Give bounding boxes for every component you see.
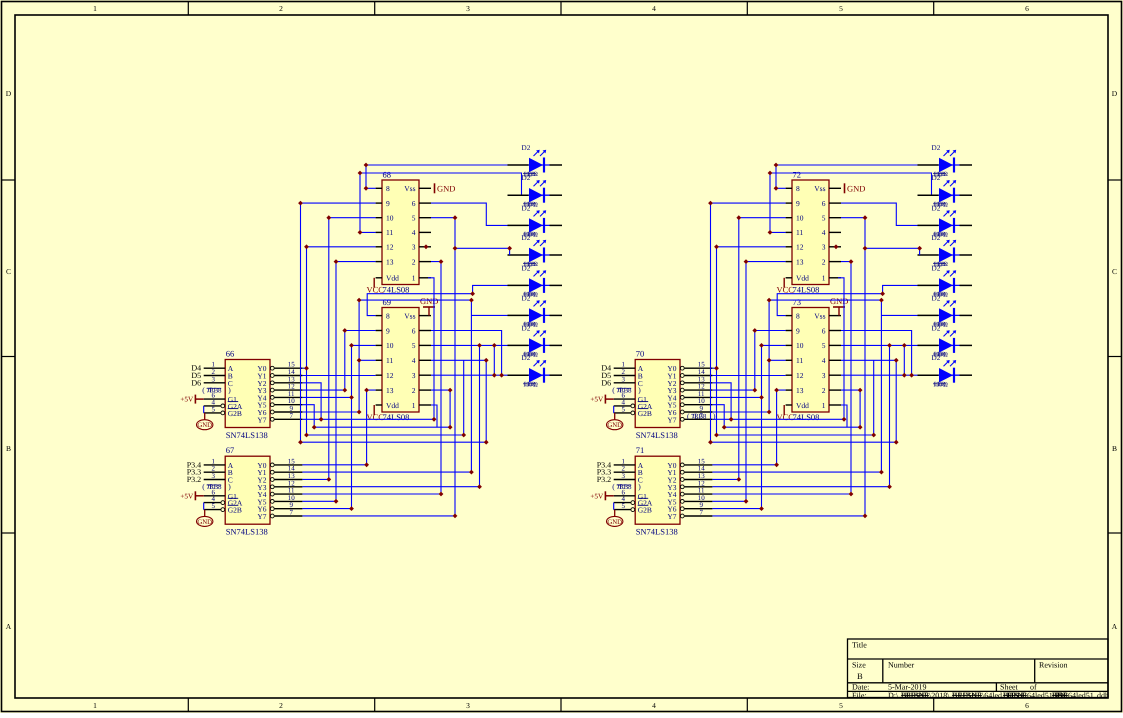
pin Vss of U68 (right) (419, 187, 431, 189)
svg-text:5: 5 (621, 405, 625, 413)
svg-text:4: 4 (652, 701, 656, 710)
wire Y3 U66 (302, 389, 344, 391)
wire Y1 U71 (712, 471, 881, 473)
svg-text:B: B (6, 444, 11, 453)
pin 9 (Y6) of U67 (270, 507, 274, 511)
junction 23 (499, 373, 504, 378)
wire pin9 U68 left (301, 203, 376, 442)
wire pin8 U69 to LED5 (367, 285, 507, 315)
junction 4 (768, 230, 773, 235)
junction 12 (842, 417, 847, 422)
pin 4 (G2A) of U66 (204, 405, 221, 407)
pin 10 of U69 (left) (376, 344, 382, 346)
wire cross y435 (717, 434, 874, 436)
pin 2 (B) of U71 (614, 471, 636, 473)
svg-text:10: 10 (386, 341, 394, 350)
LED D2 #4 symbol (939, 248, 953, 262)
pin 9 of U73 (left) (786, 330, 792, 332)
pin 8 of U69 (left) (376, 315, 382, 317)
junction 38 (334, 499, 339, 504)
svg-text:3: 3 (822, 243, 826, 252)
pin 6 of U69 (right) (419, 330, 431, 332)
svg-text:GND: GND (607, 519, 622, 526)
svg-text:GND: GND (420, 296, 438, 306)
svg-text:Ω: Ω (943, 322, 948, 329)
wire pin2 U68 to Y4 U67 (431, 262, 441, 494)
wire pin11 U73 top (769, 299, 881, 301)
junction 30 (342, 328, 347, 333)
junction 18 (357, 298, 362, 303)
LED D2 #8 anode wire (918, 374, 939, 376)
junction 5 (708, 201, 713, 206)
wire link LED7 LED8 (903, 345, 905, 375)
wire pin2 U69 riser (431, 390, 450, 427)
wire pin6 U72 to LED3 (841, 203, 918, 225)
junction 20 (767, 410, 772, 415)
junction 43 (304, 433, 309, 438)
svg-text:B: B (857, 671, 863, 681)
svg-text:Y7: Y7 (667, 415, 676, 424)
LED D2 #2 anode wire (918, 194, 939, 196)
pin 4 of U68 (right) (419, 231, 431, 233)
svg-text:HEIBHR: HEIBHR (1052, 691, 1068, 700)
svg-text:Ω: Ω (533, 322, 538, 329)
wire pin10 U68 to Y2 U67 (329, 218, 376, 480)
wire pin5 U72 bus (841, 217, 865, 219)
LED D2 #6 symbol (939, 308, 953, 322)
wire link LED7 LED8 (493, 345, 495, 375)
svg-text:Y7: Y7 (667, 512, 676, 521)
svg-text:3: 3 (466, 4, 470, 13)
svg-text:Ω: Ω (943, 201, 948, 208)
junction 33 (349, 395, 354, 400)
svg-text:tR: tR (693, 413, 700, 420)
svg-text:7: 7 (289, 509, 293, 517)
svg-text:12: 12 (386, 371, 394, 380)
wire Y3 U70 (712, 389, 754, 391)
LED D2 #6 anode wire (918, 314, 939, 316)
junction 35 (774, 388, 779, 393)
svg-text:+5V: +5V (590, 492, 604, 500)
wire riser x463 (873, 360, 875, 435)
svg-text:\64led: \64led (982, 691, 1002, 700)
pin 9 (Y6) of U70 (680, 410, 684, 414)
junction 37 (736, 477, 741, 482)
LED D2 #4 cathode wire (960, 254, 973, 256)
LED D2 #6 emission arrows (944, 301, 949, 306)
junction 30 (752, 328, 757, 333)
svg-text:+5V: +5V (180, 492, 194, 500)
svg-text:8: 8 (386, 311, 390, 320)
wire Y3 U67 (302, 486, 479, 488)
LED D2 #7 cathode wire (960, 344, 973, 346)
svg-text:C: C (6, 267, 11, 276)
svg-text:B: B (1112, 444, 1117, 453)
pin 3 of U69 (right) (419, 374, 431, 376)
junction 1 (364, 163, 369, 168)
svg-text:4: 4 (822, 356, 826, 365)
wire Y1 U70 to pin12 U73 (712, 375, 785, 377)
junction 7 (714, 244, 719, 249)
pin 15 (Y0) of U70 (680, 366, 684, 370)
wire Y3 riser to LED7 (479, 345, 481, 486)
pin 6 of U68 (right) (419, 202, 431, 204)
svg-text:Vdd: Vdd (796, 401, 809, 410)
svg-text:P3.2: P3.2 (187, 475, 201, 484)
svg-text:6: 6 (1025, 4, 1029, 13)
junction 13 (304, 366, 309, 371)
IC U71 SN74LS138 body (635, 456, 680, 524)
pin 1 of U73 (right) (829, 404, 841, 406)
svg-text:Ω: Ω (533, 352, 538, 359)
svg-text:D: D (1112, 89, 1118, 98)
svg-text:1: 1 (93, 701, 97, 710)
junction 5 (298, 201, 303, 206)
svg-text:Ω: Ω (943, 232, 948, 239)
svg-text:10: 10 (796, 214, 804, 223)
svg-text:1: 1 (93, 4, 97, 13)
svg-text:+5V: +5V (590, 396, 604, 404)
wire Y2 U71 (712, 478, 738, 480)
junction 10 (453, 215, 458, 220)
wire Y2 U70 (712, 383, 731, 420)
svg-text:2: 2 (412, 257, 416, 266)
pin 2 (B) of U67 (204, 471, 226, 473)
junction 28 (312, 425, 317, 430)
wire cross y427 (314, 426, 450, 428)
LED D2 #1 cathode wire (550, 164, 563, 166)
LED D2 #7 cathode wire (550, 344, 563, 346)
svg-text:5: 5 (621, 502, 625, 510)
junction 28 (722, 425, 727, 430)
ground symbol GND at U66 (204, 413, 206, 420)
pin 5 of U72 (right) (829, 217, 841, 219)
VCC connection at Vdd of U68 (373, 278, 375, 288)
svg-text:Ω: Ω (943, 171, 948, 178)
power port GND at Vss of U73 (838, 307, 840, 316)
pin 10 (Y5) of U66 (270, 403, 274, 407)
svg-text:1: 1 (822, 274, 826, 283)
pin 8 of U73 (left) (786, 315, 792, 317)
pin 4 of U73 (right) (829, 359, 841, 361)
pin 10 (Y5) of U70 (680, 403, 684, 407)
junction 23 (909, 373, 914, 378)
svg-text:3: 3 (412, 243, 416, 252)
junction 44 (863, 246, 868, 251)
LED D2 #2 symbol (939, 188, 953, 202)
pin 6 of U73 (right) (829, 330, 841, 332)
pin 12 (Y3) of U71 (680, 485, 684, 489)
junction 2 (774, 186, 779, 191)
ground symbol GND at U71 (614, 510, 616, 516)
LED D2 #5 anode wire (918, 284, 939, 286)
wire pin10 U69 stub wire (352, 344, 376, 346)
wire cross y442 (711, 441, 897, 443)
svg-text:5: 5 (412, 341, 416, 350)
svg-text:G2B: G2B (228, 506, 242, 515)
svg-text:74LS08: 74LS08 (383, 412, 410, 422)
wire net LED2 horizontal (360, 173, 522, 195)
svg-text:11: 11 (386, 356, 393, 365)
svg-text:4: 4 (412, 356, 416, 365)
wire Y2 U66 (302, 383, 321, 420)
junction 16 (894, 440, 899, 445)
pin 4 of U72 (right) (829, 231, 841, 233)
svg-text:Y7: Y7 (257, 512, 266, 521)
pin 11 of U68 (left) (376, 231, 382, 233)
pin 3 (C) of U70 (614, 382, 636, 384)
wire Y6 U66 (302, 411, 359, 413)
LED D2 #1 anode wire (918, 164, 939, 166)
pin Vdd of U68 (left) (376, 277, 382, 279)
wire Y4 U71 (712, 493, 851, 495)
svg-text:HEIBHR: HEIBHR (901, 691, 929, 700)
wire pin10 U73 stub wire (762, 344, 786, 346)
junction 25 (492, 373, 497, 378)
svg-text:GND: GND (847, 183, 865, 193)
IC U66 SN74LS138 body (225, 360, 270, 428)
wire pin1 U73 riser (841, 405, 847, 427)
junction 34 (349, 506, 354, 511)
wire pin10 U72 to Y2 U71 (739, 218, 786, 480)
wire net LED2 to pin11 U68 (360, 173, 376, 232)
wire pin6 U73 right (841, 331, 912, 376)
wire branch to LED4 (455, 248, 510, 255)
svg-text:+5V: +5V (180, 396, 194, 404)
IC U72 74LS08 body (792, 180, 829, 285)
svg-text:G2B: G2B (638, 409, 652, 418)
pin 7 (Y7) of U70 (680, 417, 684, 421)
svg-text:64led51: 64led51 (1027, 691, 1053, 700)
pin Vdd of U72 (left) (786, 277, 792, 279)
junction 16 (484, 440, 489, 445)
LED D2 #5 symbol (529, 278, 543, 292)
wire riser x351 (351, 345, 353, 508)
pin 11 of U72 (left) (786, 231, 792, 233)
junction 33 (759, 395, 764, 400)
wire pin11 U73 riser (768, 300, 770, 412)
svg-text:D2: D2 (522, 144, 531, 152)
pin 12 of U73 (left) (786, 374, 792, 376)
wire branch to LED4 (865, 248, 920, 255)
svg-text:3: 3 (621, 375, 625, 383)
pin 12 (Y3) of U70 (680, 388, 684, 392)
junction 40 (863, 514, 868, 519)
junction 34 (759, 506, 764, 511)
pin 13 of U73 (left) (786, 389, 792, 391)
pin 12 (Y3) of U66 (270, 388, 274, 392)
svg-text:5: 5 (211, 405, 215, 413)
pin 3 of U72 (right) (829, 246, 841, 248)
junction 22 (879, 470, 884, 475)
LED D2 #1 symbol (939, 158, 953, 172)
svg-text:Title: Title (852, 641, 867, 650)
svg-text:Ω: Ω (943, 261, 948, 268)
pin 4 (G2A) of U71 (614, 502, 631, 504)
svg-text:4: 4 (822, 228, 826, 237)
svg-text:9: 9 (796, 199, 800, 208)
LED D2 #6 emission arrows (534, 301, 539, 306)
junction 9 (849, 259, 854, 264)
LED D2 #3 cathode wire (960, 224, 973, 226)
pin 6 (G1) of U67 (204, 495, 226, 497)
wire LED6 horizontal (881, 314, 917, 316)
pin 4 of U69 (right) (419, 359, 431, 361)
svg-text:5: 5 (839, 4, 843, 13)
svg-text:GND: GND (607, 422, 622, 429)
wire Y0 U70 (712, 367, 716, 369)
junction 26 (858, 425, 863, 430)
wire Y5 U71 (712, 500, 746, 502)
svg-text:6: 6 (822, 326, 826, 335)
wire cross y442 (301, 441, 487, 443)
LED D2 #1 emission arrows (944, 151, 949, 156)
LED D2 #7 anode wire (918, 344, 939, 346)
svg-text:HEIBHR: HEIBHR (1003, 691, 1027, 700)
pin 1 (A) of U66 (204, 367, 226, 369)
wire pin11 U69 top (359, 299, 471, 301)
junction 17 (708, 440, 713, 445)
junction 43 (714, 433, 719, 438)
svg-text:9: 9 (386, 326, 390, 335)
svg-text:D2: D2 (522, 354, 531, 362)
junction 25 (902, 373, 907, 378)
svg-text:SN74LS138: SN74LS138 (226, 430, 268, 440)
svg-text:D2: D2 (932, 174, 941, 182)
junction 46 (424, 244, 429, 249)
LED D2 #1 anode wire (508, 164, 529, 166)
pin 5 (G2B) of U66 (204, 412, 221, 414)
svg-text:A: A (1112, 622, 1118, 631)
svg-text:Number: Number (888, 661, 915, 670)
svg-text:D2: D2 (932, 204, 941, 212)
svg-text:Ω: Ω (533, 381, 538, 388)
svg-text:Ω: Ω (943, 352, 948, 359)
pin 8 of U72 (left) (786, 187, 792, 189)
IC U67 SN74LS138 body (225, 456, 270, 524)
ground symbol GND at U67 (204, 510, 206, 516)
wire pin9 U69 riser (344, 331, 346, 391)
svg-text:70: 70 (636, 349, 645, 359)
svg-text:8: 8 (796, 311, 800, 320)
wire net LED1 horizontal (776, 164, 918, 166)
wire pin9 U69 stub wire (345, 330, 376, 332)
wire pin11 U69 riser (358, 300, 360, 412)
junction 37 (326, 477, 331, 482)
wire pin11 U69 stub wire (359, 359, 376, 361)
wire pin13 U72 to Y5 U71 (746, 262, 786, 502)
pin 14 (Y1) of U71 (680, 470, 684, 474)
svg-text:3: 3 (412, 371, 416, 380)
LED D2 #4 symbol (529, 248, 543, 262)
junction 6 (736, 215, 741, 220)
wire Y4 U67 (302, 493, 441, 495)
pin 5 of U68 (right) (419, 217, 431, 219)
wire pin2 U72 to Y4 U71 (841, 262, 851, 494)
LED D2 #3 emission arrows (944, 211, 949, 216)
junction 39 (849, 492, 854, 497)
pin 10 of U72 (left) (786, 217, 792, 219)
wire Y5 U70 (712, 405, 724, 428)
wire pin9 U72 left (711, 203, 786, 442)
junction 20 (357, 410, 362, 415)
junction 24 (902, 343, 907, 348)
svg-text:10: 10 (386, 214, 394, 223)
junction 19 (357, 358, 362, 363)
svg-text:Size: Size (852, 661, 866, 670)
pin 11 of U73 (left) (786, 359, 792, 361)
svg-text:Vss: Vss (814, 184, 825, 193)
svg-text:10: 10 (796, 341, 804, 350)
junction 32 (349, 343, 354, 348)
junction 42 (887, 484, 892, 489)
svg-text:Ω: Ω (533, 232, 538, 239)
svg-text:2: 2 (279, 701, 283, 710)
junction 27 (858, 388, 863, 393)
+5V power symbol at U67 (195, 495, 203, 497)
wire pin1 U69 riser (431, 405, 437, 427)
junction 27 (448, 388, 453, 393)
IC U69 74LS08 body (382, 308, 419, 413)
svg-text:1: 1 (412, 401, 416, 410)
svg-text:.ddb: .ddb (1095, 691, 1109, 700)
LED D2 #8 emission arrows (534, 361, 539, 366)
junction 2 (364, 186, 369, 191)
svg-text:Ω: Ω (533, 171, 538, 178)
svg-text:64led51: 64led51 (1068, 691, 1094, 700)
pin 11 (Y4) of U70 (680, 396, 684, 400)
LED D2 #7 symbol (529, 338, 543, 352)
pin 5 of U69 (right) (419, 344, 431, 346)
wire pin4 U69 right (431, 360, 486, 442)
LED D2 #6 anode wire (508, 314, 529, 316)
LED D2 #3 emission arrows (534, 211, 539, 216)
wire Y5 U66 (302, 405, 314, 428)
wire pin4 U73 right (841, 360, 896, 442)
wire cross y427 (724, 426, 860, 428)
pin 9 of U69 (left) (376, 330, 382, 332)
svg-text:13: 13 (386, 386, 394, 395)
svg-text:68: 68 (383, 170, 392, 180)
LED D2 #4 emission arrows (944, 241, 949, 246)
svg-text:13: 13 (386, 257, 394, 266)
LED D2 #8 symbol (529, 368, 543, 382)
LED D2 #6 symbol (529, 308, 543, 322)
svg-text:SN74LS138: SN74LS138 (636, 430, 678, 440)
wire pin5 U73 to LED7 (841, 344, 918, 346)
junction 22 (469, 470, 474, 475)
junction 38 (744, 499, 749, 504)
svg-text:3: 3 (211, 375, 215, 383)
wire pin8 U73 to LED5 (777, 285, 917, 315)
pin Vdd of U69 (left) (376, 404, 382, 406)
junction 1 (774, 163, 779, 168)
junction 7 (304, 244, 309, 249)
svg-text:9: 9 (796, 326, 800, 335)
wire pin9 U73 riser (754, 331, 756, 391)
svg-text:D6: D6 (191, 378, 201, 387)
junction 4 (358, 230, 363, 235)
junction 41 (477, 343, 482, 348)
LED D2 #4 emission arrows (534, 241, 539, 246)
junction 36 (774, 462, 779, 467)
pin 3 (C) of U66 (204, 382, 226, 384)
svg-text:1: 1 (412, 274, 416, 283)
svg-text:D2: D2 (932, 324, 941, 332)
VCC connection at Vdd of U73 (783, 405, 785, 415)
LED D2 #5 anode wire (508, 284, 529, 286)
wire Y4 U66 (302, 396, 351, 398)
